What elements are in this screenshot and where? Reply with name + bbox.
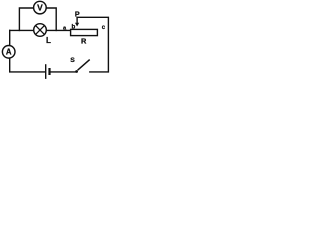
wire bbox=[9, 30, 11, 45]
wire bbox=[47, 29, 71, 31]
svg-text:L: L bbox=[46, 36, 51, 45]
svg-text:b: b bbox=[72, 24, 76, 31]
svg-text:c: c bbox=[102, 25, 106, 31]
switch S bbox=[75, 60, 90, 73]
svg-text:S: S bbox=[70, 57, 75, 64]
wire bbox=[10, 29, 34, 31]
wire bbox=[10, 58, 45, 72]
voltmeter V bbox=[34, 1, 47, 14]
lamp L bbox=[34, 24, 47, 37]
wire bbox=[51, 71, 76, 73]
wire bbox=[77, 17, 108, 72]
wire bbox=[47, 8, 57, 30]
svg-text:R: R bbox=[81, 37, 87, 46]
wire bbox=[19, 8, 33, 30]
svg-text:V: V bbox=[37, 2, 43, 12]
ammeter A bbox=[2, 46, 15, 59]
svg-text:A: A bbox=[6, 48, 12, 57]
rheostat R bbox=[71, 17, 98, 35]
svg-text:P: P bbox=[75, 9, 80, 18]
battery bbox=[46, 64, 50, 79]
